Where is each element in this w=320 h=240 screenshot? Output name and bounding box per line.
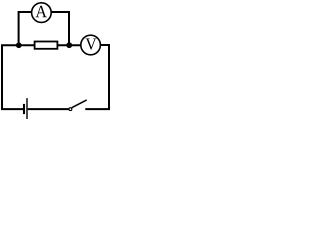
label A (ammeter) [36,6,47,17]
resistor R [35,42,58,49]
battery BAT1 short thick plate [23,104,25,114]
switch S1 lever (open) [72,100,87,108]
voltmeter V1 [81,35,101,55]
label V (voltmeter) [86,38,97,49]
battery BAT1 long thin plate [26,98,28,119]
wire: voltmeter to right outer loop down to bottom-right corner [85,45,109,109]
wire: resistor to voltmeter [58,44,81,46]
ammeter A1 [32,3,52,23]
wire: ammeter branch left vertical + top-left segment into ammeter [19,12,32,45]
wire: top-right segment from ammeter + right vertical down to junction [52,12,70,45]
switch S1 pivot circle [69,108,72,111]
node: left junction dot [16,42,22,48]
node: right junction dot [66,42,72,48]
wire: battery to switch [28,108,69,110]
wire: mid-left segment and left outer loop down to bottom-left corner [2,45,35,109]
